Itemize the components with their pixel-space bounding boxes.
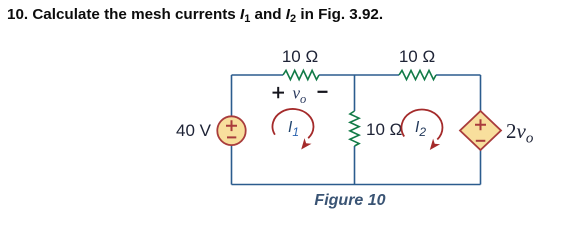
wire: top rail between resistors <box>319 74 399 76</box>
svg-text:40 V: 40 V <box>176 121 212 140</box>
arrowhead of I1 <box>301 138 311 149</box>
wire: right vertical below dependent source <box>480 149 482 185</box>
resistor R2 10ohm top-right zigzag <box>399 70 436 79</box>
wire: top rail right segment <box>436 74 481 76</box>
resistor R3 10ohm middle vertical zigzag <box>350 111 359 146</box>
wire: left vertical below source <box>231 145 233 185</box>
svg-text:10 Ω: 10 Ω <box>366 120 402 139</box>
wire: top rail left segment <box>232 74 284 76</box>
wire: middle branch below resistor <box>354 146 356 185</box>
minus sign inside diamond <box>476 140 486 142</box>
svg-text:10 Ω: 10 Ω <box>399 47 435 66</box>
svg-text:I1: I1 <box>288 119 299 139</box>
arrowhead of I2 <box>430 139 440 150</box>
plus sign inside diamond <box>475 119 486 130</box>
wire: right vertical above dependent source <box>480 75 482 112</box>
svg-text:Figure 10: Figure 10 <box>314 192 385 209</box>
plus sign of vo polarity <box>273 87 285 98</box>
mesh current I2 arc <box>401 110 442 140</box>
voltage source 40V circle <box>217 116 245 145</box>
svg-text:10 Ω: 10 Ω <box>282 47 318 66</box>
resistor R1 10ohm top-left zigzag <box>283 70 319 79</box>
wire: left vertical above source <box>231 75 233 117</box>
dependent source diamond 2vo <box>460 111 501 150</box>
mesh current I1 arc <box>272 109 313 138</box>
wire: bottom rail <box>232 184 481 186</box>
problem statement text <box>7 6 383 25</box>
svg-text:vo: vo <box>293 84 307 107</box>
minus sign inside source <box>227 136 236 138</box>
svg-text:I2: I2 <box>415 119 426 139</box>
wire: middle branch above resistor <box>354 75 356 111</box>
svg-text:2vo: 2vo <box>506 119 534 147</box>
minus sign of vo polarity <box>318 91 328 93</box>
plus sign inside source <box>226 120 237 131</box>
